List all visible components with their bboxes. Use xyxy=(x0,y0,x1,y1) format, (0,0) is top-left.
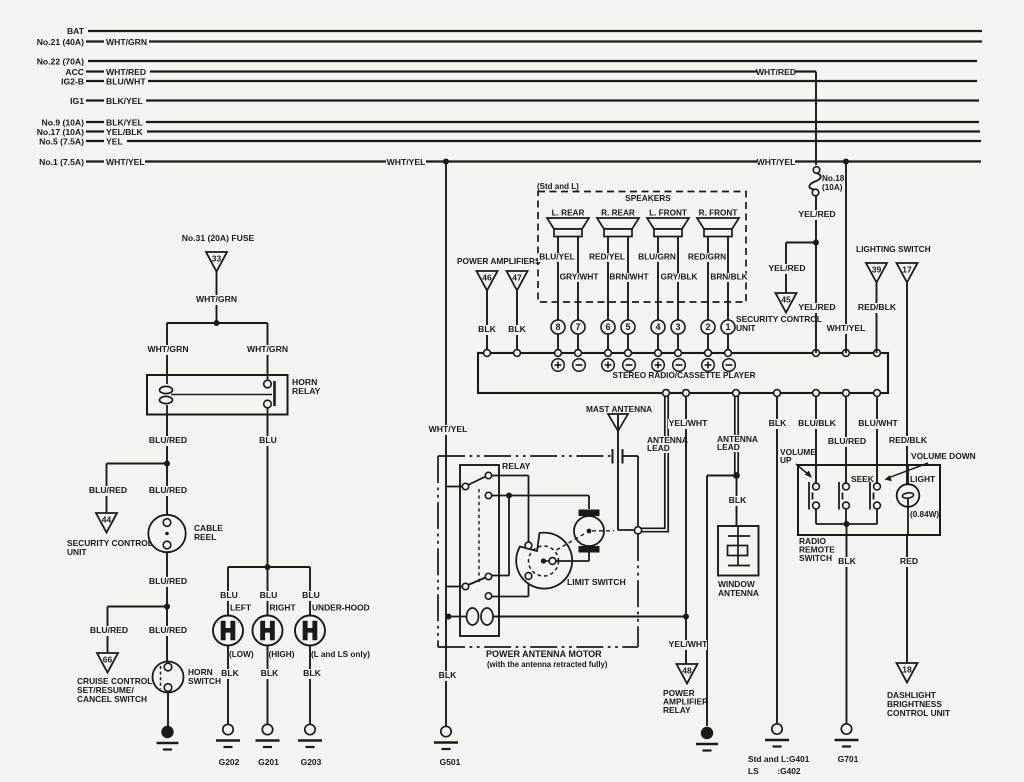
label BLU/RED xyxy=(148,436,187,446)
connector 39 xyxy=(866,263,887,283)
svg-text:BLK: BLK xyxy=(303,668,321,678)
wire WHT/GRN right drop xyxy=(267,323,269,375)
radio bottom terminals xyxy=(663,390,670,397)
bus wire No.17 YEL/BLK xyxy=(147,130,980,132)
svg-text:BLK/YEL: BLK/YEL xyxy=(106,96,143,106)
antenna lead 1 coax xyxy=(641,396,668,532)
label RED/YEL xyxy=(588,253,626,262)
svg-text:66: 66 xyxy=(103,655,113,665)
switch contact BLU/WHT xyxy=(874,483,881,490)
svg-text:RELAY: RELAY xyxy=(292,386,321,396)
svg-text:G201: G201 xyxy=(258,757,279,767)
wire WHT/YEL to radio xyxy=(845,162,847,354)
horn UNDER-HOOD xyxy=(295,616,325,646)
svg-text:17: 17 xyxy=(902,265,912,275)
svg-text:LS :G402: LS :G402 xyxy=(748,766,801,776)
svg-text:YEL/WHT: YEL/WHT xyxy=(669,639,708,649)
wire junction to contact xyxy=(508,496,510,576)
horn LEFT xyxy=(213,616,243,646)
svg-text:BLU/BLK: BLU/BLK xyxy=(798,418,837,428)
label WHT/GRN left xyxy=(148,345,187,355)
svg-text:(L and LS only): (L and LS only) xyxy=(311,650,370,659)
wire branch to 66 xyxy=(108,606,168,608)
wire 17 RED/BLK xyxy=(906,283,908,485)
svg-text:IG1: IG1 xyxy=(70,96,84,106)
wire fuse18 to junction xyxy=(815,196,817,353)
label BLU/BLK xyxy=(797,419,836,429)
switch contact BLU/RED xyxy=(843,483,850,490)
label BLK 46 xyxy=(478,325,496,335)
label GRY/WHT xyxy=(560,273,598,282)
wire pin to radio a xyxy=(557,334,559,350)
svg-text:R. FRONT: R. FRONT xyxy=(699,209,738,218)
label BLU/RED branch2 xyxy=(89,626,128,636)
wire BLK window antenna xyxy=(736,476,738,528)
wire pin to radio b xyxy=(727,334,729,350)
svg-text:WHT/GRN: WHT/GRN xyxy=(106,37,147,47)
svg-text:LEAD: LEAD xyxy=(717,442,740,452)
svg-text:BLU: BLU xyxy=(260,590,278,600)
svg-text:CONTROL UNIT: CONTROL UNIT xyxy=(887,708,951,718)
radio top terminals xyxy=(484,350,491,357)
svg-text:BLU/RED: BLU/RED xyxy=(149,485,187,495)
svg-text:G701: G701 xyxy=(838,754,859,764)
label RED/BLK 39 xyxy=(857,303,896,313)
label BLU/GRN xyxy=(638,253,676,262)
svg-text:UP: UP xyxy=(780,455,792,465)
pin 3 xyxy=(671,320,685,334)
label BLU xyxy=(259,436,277,446)
wire relay to limit lower xyxy=(492,596,529,598)
svg-text:47: 47 xyxy=(512,273,522,283)
wire to relay common bottom xyxy=(446,586,462,588)
wire connector to joint xyxy=(623,455,639,457)
svg-text:8: 8 xyxy=(555,322,560,332)
svg-text:BLK: BLK xyxy=(261,668,279,678)
svg-text:YEL/BLK: YEL/BLK xyxy=(106,127,144,137)
connector 66 xyxy=(97,653,118,673)
svg-text:BLK: BLK xyxy=(729,495,747,505)
cable reel xyxy=(148,515,185,552)
motor xyxy=(579,510,600,517)
wire BLU/BLK drop xyxy=(815,396,817,483)
svg-text:BLK: BLK xyxy=(221,668,239,678)
label YEL/RED branch xyxy=(767,264,806,274)
wire switch bottoms xyxy=(816,523,877,525)
svg-text:44: 44 xyxy=(102,515,112,525)
wire cable reel to junction2 xyxy=(166,552,168,663)
svg-text:BLK: BLK xyxy=(439,670,457,680)
wire R. FRONT + xyxy=(707,237,709,321)
wire RED to 18 xyxy=(906,535,908,663)
label BLK g501 xyxy=(439,671,457,681)
svg-text:WHT/YEL: WHT/YEL xyxy=(429,424,468,434)
svg-text:No.18: No.18 xyxy=(822,174,845,183)
wire horn switch to ground xyxy=(167,693,169,728)
ground shield xyxy=(701,727,713,739)
wire BLU to horn RIGHT xyxy=(267,567,269,616)
node BLU/RED junction 2 xyxy=(164,604,170,610)
label RED xyxy=(900,557,918,567)
wire L. REAR + xyxy=(557,237,559,321)
svg-text:CANCEL SWITCH: CANCEL SWITCH xyxy=(77,694,147,704)
wire branch to 44 xyxy=(107,463,168,465)
wire horn header xyxy=(228,566,310,568)
wire R. FRONT - xyxy=(727,237,729,321)
wire BLK radio to G401 xyxy=(776,396,778,724)
svg-text:BLU/GRN: BLU/GRN xyxy=(638,252,676,262)
svg-text:BLU: BLU xyxy=(220,590,238,600)
svg-text:46: 46 xyxy=(482,273,492,283)
svg-text:POWER ANTENNA MOTOR: POWER ANTENNA MOTOR xyxy=(486,649,602,659)
svg-text:BLU/RED: BLU/RED xyxy=(90,625,128,635)
bus wire BAT xyxy=(88,30,982,32)
node YEL/WHT junction xyxy=(683,614,689,620)
svg-text:BLU/RED: BLU/RED xyxy=(89,485,127,495)
node coil junction xyxy=(446,614,452,620)
svg-text:2: 2 xyxy=(705,322,710,332)
pin 7 xyxy=(571,320,585,334)
label BLU/RED main xyxy=(148,486,187,496)
label BLU/RED below reel xyxy=(148,577,187,587)
wire BLK to G701 xyxy=(846,524,848,724)
svg-text:RED/BLK: RED/BLK xyxy=(889,435,928,445)
speakers dashed box xyxy=(538,192,746,303)
label BLU/RED xyxy=(827,437,866,447)
wire L. FRONT - xyxy=(677,237,679,321)
node WHT/YEL left junction xyxy=(443,159,449,165)
wire relay to motor xyxy=(492,495,590,497)
horn relay contact bar xyxy=(273,381,276,406)
svg-text:RELAY: RELAY xyxy=(663,705,691,715)
horn relay contact top xyxy=(267,375,269,381)
label WHT/GRN xyxy=(197,295,236,305)
node motor feed junction xyxy=(506,493,512,499)
ground G201 xyxy=(262,724,272,734)
node switch common xyxy=(844,521,850,527)
wire YEL/WHT radio drop xyxy=(685,396,687,664)
svg-text:BLU/WHT: BLU/WHT xyxy=(858,418,898,428)
svg-text:ACC: ACC xyxy=(65,67,84,77)
wire horn UNDER-HOOD to ground xyxy=(309,645,311,724)
svg-text:LIGHT: LIGHT xyxy=(910,474,936,484)
svg-text:(0.84W): (0.84W) xyxy=(910,510,939,519)
svg-text:BLU/RED: BLU/RED xyxy=(149,625,187,635)
wire coil to YEL/WHT junction xyxy=(493,616,686,618)
label WHT/GRN right xyxy=(248,345,287,355)
bus wire No.1 WHT/YEL xyxy=(145,160,386,162)
svg-text:L. FRONT: L. FRONT xyxy=(649,209,687,218)
svg-text:No.5 (7.5A): No.5 (7.5A) xyxy=(39,137,84,147)
dashed motor link xyxy=(557,534,585,550)
wire L. REAR - xyxy=(577,237,579,321)
svg-text:BLK: BLK xyxy=(478,324,496,334)
ground G501 xyxy=(441,726,451,736)
svg-text:L. REAR: L. REAR xyxy=(552,209,585,218)
window antenna box xyxy=(718,526,759,576)
label YEL/WHT lower xyxy=(668,640,707,650)
svg-text:YEL/RED: YEL/RED xyxy=(768,263,805,273)
svg-text:WHT/YEL: WHT/YEL xyxy=(106,157,145,167)
label BLK G701 xyxy=(838,557,856,567)
bus wire WHT/GRN xyxy=(149,40,982,42)
label BLU/RED branch xyxy=(88,486,127,496)
wire to relay common top xyxy=(446,486,462,488)
svg-text:RED/YEL: RED/YEL xyxy=(589,252,625,262)
horn RIGHT xyxy=(253,616,283,646)
wire WHT/RED drop xyxy=(815,72,817,166)
power antenna box right xyxy=(637,534,639,647)
power antenna box left xyxy=(437,456,439,647)
svg-text:ANTENNA: ANTENNA xyxy=(718,588,759,598)
svg-text:SWITCH: SWITCH xyxy=(799,553,832,563)
svg-text:GRY/BLK: GRY/BLK xyxy=(660,272,697,282)
wire pin to radio a xyxy=(707,334,709,350)
svg-text:WHT/RED: WHT/RED xyxy=(756,67,796,77)
antenna lead 1 label xyxy=(646,436,684,445)
label BLU RIGHT xyxy=(260,591,278,601)
svg-text:WHT/YEL: WHT/YEL xyxy=(387,157,426,167)
svg-text:UNIT: UNIT xyxy=(67,547,87,557)
svg-text:G202: G202 xyxy=(219,757,240,767)
bus wire No.22 xyxy=(88,60,977,62)
svg-text:SWITCH: SWITCH xyxy=(188,676,221,686)
volume up arrow xyxy=(796,464,810,476)
svg-text:BLU/RED: BLU/RED xyxy=(149,576,187,586)
power antenna box bottom xyxy=(438,646,638,648)
svg-text:BLK: BLK xyxy=(838,556,856,566)
svg-text:No.22 (70A): No.22 (70A) xyxy=(37,57,84,67)
svg-text:BAT: BAT xyxy=(67,26,85,36)
svg-text:(10A): (10A) xyxy=(822,183,843,192)
relay link dashed xyxy=(478,489,480,584)
horn relay box xyxy=(147,375,288,415)
label BLK UNDER-HOOD xyxy=(303,669,321,679)
svg-text:18: 18 xyxy=(902,665,912,675)
window antenna symbol xyxy=(737,526,739,566)
label BLU LEFT xyxy=(220,591,238,601)
svg-text:YEL/WHT: YEL/WHT xyxy=(669,418,708,428)
relay switch bottom xyxy=(462,583,468,589)
svg-text:BLU/RED: BLU/RED xyxy=(828,436,866,446)
label BLU/YEL xyxy=(538,253,576,262)
svg-text:45: 45 xyxy=(781,295,791,305)
label GRY/BLK xyxy=(660,273,698,282)
svg-text:(LOW): (LOW) xyxy=(229,650,254,659)
wire WHT/YEL main drop xyxy=(445,162,447,727)
ground G401 xyxy=(772,724,782,734)
svg-text:RED/BLK: RED/BLK xyxy=(858,302,897,312)
svg-text:BLU/WHT: BLU/WHT xyxy=(106,77,146,87)
svg-text:(Std and L): (Std and L) xyxy=(537,182,579,191)
relay switch top xyxy=(462,483,468,489)
label BLK G401 xyxy=(769,419,787,429)
pin 5 xyxy=(621,320,635,334)
wire pin to radio b xyxy=(627,334,629,350)
bus wire ACC WHT/RED xyxy=(150,70,757,72)
svg-text:4: 4 xyxy=(655,322,660,332)
svg-text:6: 6 xyxy=(605,322,610,332)
wire shield to ground xyxy=(707,475,737,477)
remote switch box xyxy=(798,465,940,535)
svg-text:1: 1 xyxy=(725,322,730,332)
svg-text:BLK/YEL: BLK/YEL xyxy=(106,118,143,128)
fuse No.18 xyxy=(813,167,820,174)
horn relay armature line xyxy=(171,394,272,396)
svg-text:BLU/YEL: BLU/YEL xyxy=(539,252,575,262)
wire BLU/RED drop xyxy=(845,396,847,483)
label BLK 47 xyxy=(508,325,526,335)
svg-text:48: 48 xyxy=(682,666,692,676)
wire pin to radio b xyxy=(577,334,579,350)
svg-text:WHT/YEL: WHT/YEL xyxy=(757,157,796,167)
svg-text:POWER AMPLIFIERS: POWER AMPLIFIERS xyxy=(457,256,541,266)
svg-text:IG2-B: IG2-B xyxy=(61,77,84,87)
svg-text:WHT/RED: WHT/RED xyxy=(106,67,146,77)
connector 46 xyxy=(477,271,498,291)
ground horn switch xyxy=(161,726,173,738)
svg-text:BLU: BLU xyxy=(259,435,277,445)
node antenna lead 2 shield xyxy=(733,472,740,479)
connector 18 xyxy=(897,663,918,683)
svg-text:BLU: BLU xyxy=(302,590,320,600)
svg-text:RIGHT: RIGHT xyxy=(270,603,297,613)
svg-text:3: 3 xyxy=(675,322,680,332)
svg-text:YEL/RED: YEL/RED xyxy=(798,209,835,219)
svg-text:33: 33 xyxy=(212,254,222,264)
radio polarity marks xyxy=(552,359,565,372)
svg-text:No.1 (7.5A): No.1 (7.5A) xyxy=(39,157,84,167)
svg-text:REEL: REEL xyxy=(194,532,216,542)
svg-text:BRN/BLK: BRN/BLK xyxy=(710,272,747,282)
svg-text:BLU/RED: BLU/RED xyxy=(149,435,187,445)
svg-text:5: 5 xyxy=(625,322,630,332)
svg-text:YEL/RED: YEL/RED xyxy=(798,302,835,312)
ground G203 xyxy=(305,724,315,734)
connector 45 xyxy=(776,293,797,313)
label WHT/YEL mid xyxy=(428,425,467,435)
node horn junction xyxy=(265,564,271,570)
volume up label xyxy=(779,448,812,457)
label BLU UNDER-HOOD xyxy=(302,591,320,601)
wire BLU to horn UNDER-HOOD xyxy=(309,567,311,616)
svg-text:BRN/WHT: BRN/WHT xyxy=(609,272,648,282)
wire pin to radio b xyxy=(677,334,679,350)
bus wire No.5 YEL xyxy=(127,140,981,142)
wire BLU to horn LEFT xyxy=(227,567,229,616)
node fuse33 junction xyxy=(214,320,220,326)
pin 1 xyxy=(721,320,735,334)
svg-text:MAST ANTENNA: MAST ANTENNA xyxy=(586,404,652,414)
wire L. FRONT + xyxy=(657,237,659,321)
ground G202 xyxy=(223,724,233,734)
label BLK window xyxy=(729,496,747,506)
svg-text:No.17 (10A): No.17 (10A) xyxy=(37,127,84,137)
svg-text:G203: G203 xyxy=(301,757,322,767)
horn relay contact bottom xyxy=(264,400,272,408)
pin 6 xyxy=(601,320,615,334)
label BLU/WHT xyxy=(858,419,897,429)
svg-text:RED: RED xyxy=(900,556,918,566)
svg-text:RED/GRN: RED/GRN xyxy=(688,252,726,262)
svg-text:STEREO RADIO/CASSETTE PLAYER: STEREO RADIO/CASSETTE PLAYER xyxy=(612,371,755,380)
connector 47 xyxy=(507,271,528,291)
wire 39 RED/BLK xyxy=(876,283,878,354)
bus wire No.9 BLK/YEL xyxy=(146,121,979,123)
wire pin to radio a xyxy=(657,334,659,350)
wire horn LEFT to ground xyxy=(227,645,229,724)
connector 44 xyxy=(96,513,117,533)
svg-text:YEL: YEL xyxy=(106,137,123,147)
node YEL/RED junction xyxy=(813,240,819,246)
label BLU/RED main2 xyxy=(148,626,187,636)
wire relay to limit upper xyxy=(492,475,529,477)
svg-text:No.9 (10A): No.9 (10A) xyxy=(42,118,85,128)
label RED/GRN xyxy=(688,253,726,262)
node antenna joint xyxy=(634,527,641,534)
svg-text:UNDER-HOOD: UNDER-HOOD xyxy=(312,603,370,613)
svg-text:R. REAR: R. REAR xyxy=(601,209,635,218)
connector 17 xyxy=(897,263,918,283)
horn relay coil xyxy=(166,375,168,384)
svg-text:GRY/WHT: GRY/WHT xyxy=(560,272,599,282)
svg-text:WHT/GRN: WHT/GRN xyxy=(147,344,188,354)
svg-text:LEAD: LEAD xyxy=(647,443,670,453)
label BRN/BLK xyxy=(710,273,748,282)
svg-text:BLK: BLK xyxy=(769,418,787,428)
svg-text:LEFT: LEFT xyxy=(230,603,252,613)
wire horn RIGHT to ground xyxy=(267,645,269,724)
switch contact BLU/BLK xyxy=(813,483,820,490)
svg-text:BLK: BLK xyxy=(508,324,526,334)
wire WHT/GRN left drop xyxy=(166,323,168,375)
svg-text:LIMIT SWITCH: LIMIT SWITCH xyxy=(567,577,626,587)
svg-text:VOLUME DOWN: VOLUME DOWN xyxy=(911,451,976,461)
label BLK LEFT xyxy=(221,669,239,679)
mast antenna symbol xyxy=(608,414,628,431)
bus wire IG1 BLK/YEL xyxy=(146,99,979,101)
svg-text:WHT/YEL: WHT/YEL xyxy=(827,323,866,333)
pin 8 xyxy=(551,320,565,334)
node BLU/RED junction 1 xyxy=(164,461,170,467)
limit switch xyxy=(516,533,572,589)
label BRN/WHT xyxy=(610,273,648,282)
wire horn relay feed horizontal xyxy=(167,322,268,324)
svg-text:Std and L:G401: Std and L:G401 xyxy=(748,754,810,764)
antenna lead 2 coax xyxy=(734,396,736,473)
wire R. REAR + xyxy=(607,237,609,321)
svg-text:(with the antenna retracted fu: (with the antenna retracted fully) xyxy=(487,660,608,669)
label WHT/YEL right xyxy=(826,324,865,334)
svg-text:No.31 (20A) FUSE: No.31 (20A) FUSE xyxy=(182,233,255,243)
svg-text:UNIT: UNIT xyxy=(736,323,756,333)
light bulb xyxy=(907,465,909,492)
antenna relay coil xyxy=(449,616,466,618)
antenna lead connector xyxy=(612,449,614,464)
svg-text:(HIGH): (HIGH) xyxy=(269,650,295,659)
label YEL/RED lower xyxy=(797,303,836,313)
wire BLU relay to horns xyxy=(267,415,269,568)
label RED/BLK 17 xyxy=(888,436,927,446)
stereo radio box xyxy=(478,353,888,393)
connector 33 xyxy=(206,252,227,272)
label YEL/RED upper xyxy=(797,210,836,220)
node WHT/YEL right junction xyxy=(843,159,849,165)
volume down arrow xyxy=(888,463,928,478)
horn switch xyxy=(153,662,184,693)
svg-text:RELAY: RELAY xyxy=(502,461,531,471)
wire 46 BLK xyxy=(486,291,488,351)
